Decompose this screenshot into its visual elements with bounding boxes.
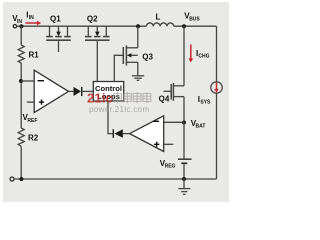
svg-text:REF: REF <box>27 118 37 124</box>
svg-text:SYS: SYS <box>200 100 211 106</box>
node bottom ground junction <box>182 177 186 181</box>
svg-text:IN: IN <box>17 19 22 25</box>
wire Q4 source to VBAT <box>183 97 185 123</box>
svg-text:R1: R1 <box>29 51 40 60</box>
background panel <box>0 0 234 205</box>
ground below Q3 <box>132 76 145 81</box>
diode D2 <box>114 129 122 138</box>
svg-text:IN: IN <box>29 15 34 21</box>
watermark CJK glyphs <box>114 92 151 103</box>
resistor R1 <box>20 26 22 45</box>
svg-text:Q2: Q2 <box>87 15 98 24</box>
wire VBAT to op-amp minus <box>164 121 184 123</box>
wire VBUS to Q4 drain <box>183 26 185 86</box>
transistor Q1 <box>46 26 71 52</box>
svg-text:Q3: Q3 <box>142 53 153 62</box>
current arrow ICHG <box>190 45 192 60</box>
wire plus input stub U2 <box>164 143 174 145</box>
svg-text:BAT: BAT <box>196 124 206 130</box>
wire bottom rail <box>14 178 217 180</box>
svg-text:Q4: Q4 <box>159 95 170 104</box>
current source ISYS <box>211 82 223 94</box>
svg-text:21ic: 21ic <box>87 91 113 106</box>
op-amp U1 <box>34 70 68 112</box>
battery VREG <box>183 123 185 159</box>
svg-text:REG: REG <box>165 164 176 170</box>
svg-text:CHG: CHG <box>198 54 209 60</box>
bottom terminal <box>10 177 14 181</box>
ground bottom <box>178 179 190 194</box>
wire right edge <box>216 26 218 81</box>
node VBAT <box>182 121 186 125</box>
wire Q3 gate to control block <box>114 55 122 81</box>
wire top rail <box>17 25 147 27</box>
wire minus input stub <box>21 80 34 82</box>
svg-text:R2: R2 <box>28 134 39 143</box>
transistor Q2 <box>85 26 110 40</box>
wire diode to control block <box>82 90 94 92</box>
current arrow IIN <box>26 22 38 24</box>
svg-text:Q1: Q1 <box>50 15 61 24</box>
control block U3 <box>93 82 123 102</box>
op-amp U2 <box>130 116 164 152</box>
transistor Q4 <box>164 83 185 101</box>
wire op-amp U2 output <box>123 133 130 135</box>
node VIN junction <box>19 24 23 28</box>
wire Q2 gate to control block <box>96 40 98 81</box>
wire diode D2 to control block bottom <box>108 101 113 134</box>
wire R1 to R2 <box>20 63 22 128</box>
svg-text:L: L <box>156 13 161 22</box>
node bottom left junction <box>19 177 23 181</box>
node VBUS <box>182 24 186 28</box>
svg-text:power.21ic.com: power.21ic.com <box>89 105 149 114</box>
node Q3 drain junction <box>136 24 140 28</box>
wire plus input stub <box>27 101 34 103</box>
resistor R2 <box>18 128 24 147</box>
transistor Q3 <box>123 26 138 76</box>
node op-amp minus tap <box>19 79 23 83</box>
diode D1 <box>74 87 82 96</box>
wire R2 to bottom rail <box>20 147 22 180</box>
inductor L <box>146 23 173 26</box>
wire op-amp U1 output <box>69 90 74 92</box>
svg-text:BUS: BUS <box>189 16 200 22</box>
node VIN terminal <box>13 25 16 28</box>
